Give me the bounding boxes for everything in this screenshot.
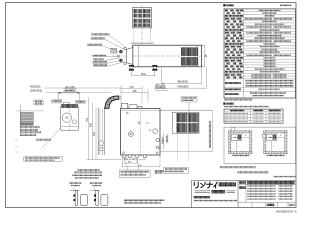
tall cell 3-line value bbox=[246, 80, 294, 82]
dimension 160 between feet bbox=[132, 71, 155, 77]
boxed label insulation bbox=[76, 100, 86, 103]
unit in alcove bbox=[267, 134, 277, 141]
front view inner top line bbox=[121, 109, 160, 111]
svg-text:*: * bbox=[238, 145, 239, 149]
boxed label exhaust cover bbox=[52, 100, 62, 103]
svg-text:40~135: 40~135 bbox=[65, 85, 75, 89]
title block frame bbox=[191, 180, 295, 207]
notes above bracket details bbox=[78, 169, 100, 171]
circles inside front view bbox=[129, 132, 134, 137]
spec table 2 heading bbox=[223, 103, 225, 105]
logo suffix text bbox=[219, 182, 237, 186]
wall clearance note lines bbox=[20, 126, 40, 128]
callout label bbox=[93, 54, 107, 56]
extension lines near wall bbox=[19, 105, 21, 132]
left detail: exhaust-cover side view bbox=[61, 107, 79, 131]
fan circle bbox=[62, 113, 71, 122]
left dimension chain bbox=[87, 97, 122, 159]
svg-text:160: 160 bbox=[141, 72, 146, 76]
gaikanzu (outline drawing) line bbox=[195, 191, 235, 193]
svg-text:150: 150 bbox=[93, 131, 96, 136]
right vertical dimension bbox=[160, 110, 212, 151]
tall cell label bbox=[225, 82, 241, 84]
svg-text:460(500): 460(500) bbox=[30, 84, 41, 88]
name cell bbox=[239, 181, 246, 184]
svg-text:4905DGF-1: 4905DGF-1 bbox=[276, 209, 297, 213]
svg-text:480(520): 480(520) bbox=[177, 79, 188, 83]
svg-text:*: * bbox=[245, 134, 246, 138]
spec table 1 grid bbox=[224, 9, 296, 98]
svg-text:755: 755 bbox=[86, 117, 89, 122]
units note bbox=[280, 4, 292, 6]
bottom dimension chain bbox=[122, 155, 160, 167]
callout label bbox=[87, 44, 102, 46]
wall-fixing bracket detail bbox=[70, 187, 88, 205]
flue projection dashed lines bbox=[133, 28, 135, 43]
Rinnai Corporation bbox=[194, 196, 211, 198]
svg-text:135: 135 bbox=[132, 90, 137, 93]
front view unit body bbox=[121, 109, 160, 156]
boxed label (flue pipe) bbox=[64, 89, 76, 92]
note line bbox=[36, 139, 51, 141]
boxed label above wall bbox=[34, 100, 43, 105]
address bbox=[194, 200, 238, 202]
unit in alcove bbox=[232, 134, 242, 141]
clearance diagram bbox=[262, 131, 287, 154]
boxed label (pipe sleeve to wall) bbox=[164, 167, 188, 173]
flue terminal (top view) outline bbox=[132, 8, 151, 28]
diagram captions bbox=[232, 154, 250, 156]
bottom pipe stubs bbox=[122, 155, 125, 157]
side exhaust hatched block bbox=[172, 112, 199, 133]
wall section line (top view) bbox=[131, 42, 154, 44]
spec table 1 row labels bbox=[225, 9, 228, 11]
small vertical dims below block bbox=[164, 133, 168, 150]
spec table 2 cells bbox=[230, 110, 244, 112]
unit body (top view) bbox=[133, 45, 202, 67]
front view vertical centerline bbox=[139, 107, 141, 157]
flue elbow (dark curved duct) bbox=[105, 96, 119, 108]
flue adapter flange (left of unit) bbox=[127, 48, 133, 65]
svg-text:15: 15 bbox=[204, 54, 208, 58]
callout label bbox=[92, 33, 110, 35]
spec table 2 grid bbox=[224, 109, 283, 123]
clearance diagrams box bbox=[224, 127, 296, 163]
svg-text:540(580): 540(580) bbox=[177, 84, 188, 88]
flue terminal hatched louvre band lower bbox=[134, 19, 151, 27]
clearance diagram bbox=[229, 127, 252, 153]
leader lines from stubs to label bbox=[124, 158, 128, 170]
bottom 2-line cell bbox=[225, 93, 239, 95]
circles on front view right edge bbox=[156, 138, 159, 141]
dashed projection lines below block bbox=[176, 133, 178, 161]
tiny line above title block bbox=[274, 176, 297, 178]
small component box on unit left bbox=[111, 48, 117, 53]
note line bbox=[224, 106, 269, 108]
callout label bbox=[91, 37, 105, 39]
svg-text:*: * bbox=[280, 134, 281, 138]
svg-text:*: * bbox=[273, 145, 274, 149]
callout label bbox=[93, 61, 108, 63]
svg-text:643: 643 bbox=[90, 122, 93, 127]
right section: top line bbox=[160, 109, 212, 111]
asterisk note below box bbox=[220, 166, 256, 168]
small boxed label right bbox=[155, 170, 165, 172]
scale cell bbox=[267, 204, 275, 206]
boxed label above block bbox=[181, 96, 197, 102]
callout label bbox=[93, 58, 104, 60]
arrow-direction note bbox=[237, 171, 269, 173]
Rinnai logo (katakana) bbox=[194, 182, 217, 188]
mounting feet (top view) bbox=[129, 65, 134, 71]
flue centerline (dash-dot) bbox=[141, 5, 143, 47]
svg-text:(240(260)): (240(260)) bbox=[30, 89, 43, 93]
vertical flue pipe (front view left) bbox=[97, 108, 99, 156]
boxed 2-line label below front view bbox=[120, 170, 151, 177]
item cell bbox=[239, 186, 246, 189]
leader diagonal to wall note bbox=[42, 128, 61, 148]
price row bbox=[225, 88, 241, 90]
note under table 1 bbox=[224, 99, 252, 101]
unit horizontal centerline bbox=[112, 55, 207, 57]
wall-fixing bracket detail bbox=[90, 187, 108, 205]
boxed note bottom-left bbox=[24, 157, 63, 162]
wall cross-section hatched strip bbox=[21, 113, 34, 126]
bracket labels bbox=[69, 182, 81, 184]
louvre group gaps bbox=[134, 9, 151, 27]
flue terminal hatched louvre band upper bbox=[134, 9, 151, 17]
callout label bbox=[93, 64, 107, 66]
drawing sheet frame bbox=[6, 3, 297, 208]
note text right of brackets bbox=[124, 199, 165, 201]
top components on front view bbox=[122, 103, 128, 108]
dimension 15 at right of unit bbox=[201, 45, 205, 67]
left frame tick marks bbox=[15, 140, 18, 152]
valve circle on pipe bbox=[99, 141, 104, 146]
spec table 1 heading bbox=[223, 4, 225, 6]
heat exchanger hatched blocks (top view) bbox=[181, 48, 189, 56]
spec table 1 values bbox=[258, 10, 280, 12]
